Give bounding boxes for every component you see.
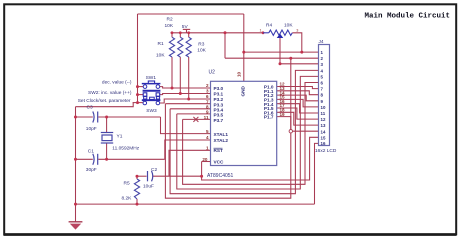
wire pot wiper down to LCD pin3 row (279, 38, 281, 64)
svg-text:13: 13 (321, 123, 326, 128)
svg-text:2: 2 (206, 83, 209, 88)
svg-text:P3.1: P3.1 (214, 92, 224, 97)
svg-text:AT89C4051: AT89C4051 (207, 173, 234, 179)
wire C2 right to RST riser (152, 175, 201, 177)
wire VCC row (pin 20) (202, 161, 211, 163)
svg-text:SW3: SW3 (146, 108, 157, 114)
open circle node on P1.7 fan corner (289, 130, 292, 133)
wire SW1 left stub (138, 86, 144, 88)
svg-text:P3.5: P3.5 (214, 113, 224, 118)
svg-text:U2: U2 (209, 70, 216, 76)
wire switch-common vertical (from top loop to SW rows) (137, 14, 139, 102)
no-connect X on P3.7 wire (193, 117, 198, 122)
svg-text:J4: J4 (319, 39, 324, 45)
svg-text:Y1: Y1 (117, 134, 123, 140)
wire R1 bottom vertical to row pin2 (171, 57, 173, 88)
svg-text:11: 11 (321, 111, 326, 116)
wire R1 top stub (171, 33, 173, 37)
svg-text:GND: GND (241, 85, 246, 96)
svg-text:3: 3 (296, 29, 298, 33)
svg-text:P1.7: P1.7 (264, 115, 274, 120)
svg-text:10: 10 (236, 71, 241, 77)
wire loop D: pin11 row to LCD pin6 (183, 118, 211, 120)
svg-text:5: 5 (206, 129, 209, 134)
wire C3 row right to XTAL1 corner (98, 116, 160, 118)
svg-text:SW1: SW1 (146, 75, 157, 81)
chip pin numbers left (202, 83, 209, 162)
wire C1 row right (98, 158, 165, 160)
svg-text:XTAL2: XTAL2 (214, 138, 229, 143)
wire P1.4 fan to LCD pin11 (277, 104, 319, 113)
ground symbol (69, 222, 83, 230)
resistor R1 (169, 37, 174, 57)
wire SW3 right to P3.2 row (pin 6) (160, 99, 211, 103)
wire R3 bottom vertical to row pin6 (188, 57, 190, 99)
wire pot right terminal down (292, 33, 302, 52)
wire ground symbol stub (75, 204, 77, 221)
svg-text:1: 1 (260, 29, 262, 33)
wire P1.3 fan to LCD pin10 (277, 99, 319, 107)
svg-text:XTAL1: XTAL1 (214, 132, 229, 137)
svg-text:16x2 LCD: 16x2 LCD (315, 148, 337, 154)
wire loop C: pin9 row to LCD pin5 (177, 113, 211, 115)
wire XTAL1 feed (161, 117, 211, 134)
wire ground bottom rail (76, 203, 315, 205)
wire P1.2 fan to LCD pin9 (277, 95, 319, 101)
svg-text:11: 11 (204, 115, 209, 120)
svg-text:10: 10 (321, 105, 326, 110)
wire ground rail up to LCD pin16 (315, 143, 319, 204)
svg-text:6: 6 (206, 94, 209, 99)
wire R2 top stub (179, 33, 181, 37)
svg-text:10K: 10K (156, 53, 165, 59)
svg-text:P3.0: P3.0 (214, 86, 224, 91)
wire XTAL2 feed (165, 140, 211, 159)
wire R2 bottom vertical to row pin3 (179, 57, 181, 94)
svg-text:R3: R3 (198, 42, 204, 48)
svg-text:3: 3 (206, 89, 209, 94)
wire crystal top stub (106, 117, 108, 133)
wire crystal bottom stub (106, 143, 108, 159)
svg-text:SW2: inc. value (++): SW2: inc. value (++) (88, 90, 132, 96)
wire loop B: pin8 row to VDD row (170, 108, 210, 110)
svg-text:dec. value (--): dec. value (--) (102, 79, 132, 85)
svg-text:11.0592MHz: 11.0592MHz (112, 146, 139, 152)
RST overline (214, 147, 223, 149)
svg-text:14: 14 (321, 129, 326, 134)
svg-text:Set Clock/set. parameter: Set Clock/set. parameter (78, 98, 131, 104)
capacitor C1 plates (93, 154, 98, 165)
svg-text:15: 15 (321, 135, 326, 140)
wire LCD pin1 row (244, 51, 319, 53)
wire SW1 right to P3.0 row (pin 2) (160, 87, 211, 88)
resistor R2 (178, 37, 183, 57)
svg-text:1: 1 (206, 146, 209, 151)
wire GND pin10 vertical (top loop to chip top) (243, 14, 245, 81)
potentiometer R4 wiper arrow (277, 34, 284, 38)
svg-text:RST: RST (214, 148, 224, 153)
wire RST node to C2 left (137, 175, 147, 177)
wire SW2 left stub (138, 94, 144, 96)
svg-text:5V: 5V (182, 24, 189, 30)
LCD pin numbers 1-16 (321, 50, 326, 146)
svg-text:Main Module Circuit: Main Module Circuit (365, 12, 451, 20)
svg-text:9: 9 (206, 110, 209, 115)
potentiometer R4 (263, 30, 292, 35)
outer border bottom thick line (4, 233, 457, 236)
wire LCD pin3 row (280, 63, 319, 65)
wire RST riser and row (169, 150, 211, 176)
svg-text:R2: R2 (167, 17, 173, 23)
switch SW3 (pushbutton) (142, 97, 161, 105)
svg-text:30pF: 30pF (86, 167, 97, 173)
wire C1 row left (76, 158, 93, 160)
wire P1.7 fan to LCD pin14 (277, 117, 319, 132)
svg-text:12: 12 (321, 117, 326, 122)
svg-text:4: 4 (206, 135, 209, 140)
svg-text:R4: R4 (266, 23, 272, 29)
wire P1.1 fan to LCD pin8 (277, 91, 319, 95)
wire VDD branch down from rail (224, 33, 226, 58)
wire loop A: P3.3 pin7 to LCD pin4 (165, 103, 210, 105)
svg-text:C1: C1 (88, 149, 94, 155)
IC U2 AT89C4051 body (211, 81, 277, 165)
svg-text:C3: C3 (87, 104, 93, 110)
capacitor C3 plates (93, 112, 98, 123)
wire R5 bottom stub (136, 199, 138, 204)
wire R3 top stub (188, 33, 190, 37)
wire SW2 right to P3.1 row (pin 3) (160, 94, 211, 95)
svg-text:10K: 10K (197, 48, 206, 54)
5V power symbol (183, 29, 190, 32)
svg-text:C2: C2 (151, 167, 157, 173)
capacitor C2 plates (148, 171, 153, 181)
wire P1.0 fan to LCD pin7 (277, 87, 319, 89)
wire 5V rail (171, 32, 264, 34)
wire left ground bus vertical (75, 107, 77, 204)
svg-text:19: 19 (280, 112, 286, 117)
crystal Y1 (101, 133, 113, 144)
svg-text:R5: R5 (124, 181, 130, 187)
switch SW1 (pushbutton) (142, 81, 161, 96)
svg-text:P3.7: P3.7 (214, 118, 224, 123)
svg-text:8.2K: 8.2K (122, 196, 133, 202)
wire LCD pin2 row (225, 57, 319, 59)
svg-text:10K: 10K (165, 23, 174, 29)
resistor R5 (134, 179, 139, 199)
LCD connector J4 body (319, 45, 330, 146)
svg-text:10pF: 10pF (86, 126, 97, 132)
wire loop E: VCC corner to LCD pin15 (202, 137, 319, 180)
svg-text:10K: 10K (284, 23, 293, 29)
chip U2 inside pin name texts (214, 85, 274, 165)
wire P1.6 fan to LCD pin13 (277, 112, 319, 125)
svg-text:VCC: VCC (214, 160, 225, 165)
svg-text:10uF: 10uF (143, 183, 154, 189)
wire P1.5 fan to LCD pin12 (277, 108, 319, 119)
svg-text:16: 16 (321, 141, 326, 146)
wire top-left loop horizontal (138, 13, 244, 15)
chip pin numbers right (280, 82, 286, 117)
svg-text:P3.2: P3.2 (214, 97, 224, 102)
wire Set-Clock jog down to bus (76, 103, 134, 107)
svg-text:20: 20 (202, 157, 208, 162)
resistor R3 (186, 37, 191, 57)
wire Set-Clock row to SW3 left (133, 102, 143, 104)
wire R5 top stub (136, 176, 138, 179)
svg-text:R1: R1 (158, 41, 164, 47)
wire C3 row left (76, 116, 93, 118)
